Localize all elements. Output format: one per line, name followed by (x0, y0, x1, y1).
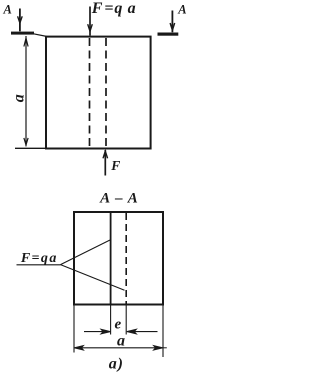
wire: connector from left bar to column corner (34, 34, 47, 37)
column outline (front view) (46, 37, 151, 149)
svg-text:e: e (114, 316, 121, 332)
arrow: right section-cut arrow pointing down (170, 11, 175, 33)
svg-text:a: a (10, 94, 27, 102)
weld/force line (solid, in section) (110, 212, 112, 305)
section cut bar right (158, 33, 179, 36)
svg-text:A – A: A – A (99, 190, 139, 206)
leader line to solid force line (61, 240, 111, 265)
dashed line of action (right, over bottom force) (105, 38, 107, 148)
extension line below left edge (73, 306, 75, 353)
dashed line of action (left, under top force) (89, 38, 91, 148)
svg-text:F=qa: F=qa (91, 0, 136, 17)
svg-text:F: F (110, 158, 120, 173)
dashed line of action (in section) (125, 213, 127, 304)
extension line below dashed line (125, 305, 127, 335)
section A-A outline (74, 212, 163, 305)
dimension e right arrow (127, 329, 158, 334)
dimension line a (section width) (74, 346, 167, 350)
svg-text:a: a (117, 333, 125, 350)
leader line to dashed force line (61, 265, 125, 291)
svg-text:A: A (177, 2, 186, 16)
arrow: left section-cut arrow pointing down (18, 9, 23, 32)
wire: underline of F=qa label (17, 264, 61, 266)
extension line below solid line (110, 305, 112, 335)
force arrow F at bottom pointing up (103, 150, 108, 176)
force arrow F=qa at top pointing down (88, 7, 93, 36)
dimension e left arrow (84, 329, 111, 334)
svg-text:F=qa: F=qa (20, 251, 57, 266)
svg-text:A: A (3, 3, 12, 17)
svg-text:а): а) (109, 355, 124, 372)
dimension line a (left side of column) (24, 36, 28, 146)
section cut bar left (11, 32, 34, 35)
extension line below right edge (162, 306, 164, 358)
wire: bottom-left extension line (15, 147, 45, 149)
